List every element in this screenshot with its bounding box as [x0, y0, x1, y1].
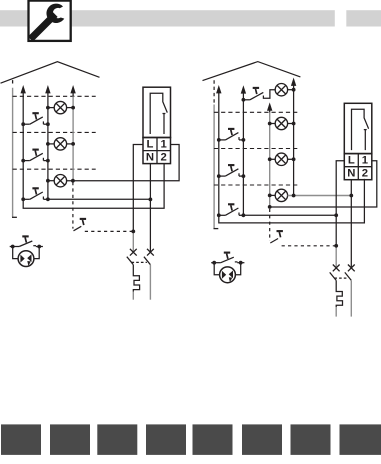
junction lamp E2 left (right house) [268, 157, 272, 161]
junction S1 (right) right contact [242, 138, 246, 142]
wrench icon box [29, 1, 71, 41]
junction S3 (left) right contact [46, 197, 50, 201]
junction lamp E3 left [46, 179, 50, 183]
push button S1 (left) [23, 117, 48, 124]
wire: button supply riser + bus to terminal 2 (left) [23, 93, 164, 209]
junction S2 (left) left contact [21, 159, 25, 163]
junction button bus to L (right) [334, 213, 338, 217]
junction lamp E3 left (right house) [268, 194, 272, 198]
junction S3 (right) left contact [217, 213, 221, 217]
rail foot (right) [214, 228, 219, 230]
wire: button riser + bus to terminal 2 (right) [219, 93, 365, 223]
junction optional button to L (left) [131, 230, 135, 234]
lamp E1 (left) [54, 101, 66, 113]
wire: lamp output terminal 1 (right) [270, 161, 377, 207]
supply arrow (left, lamp return) [70, 85, 75, 93]
svg-text:2: 2 [362, 168, 368, 180]
junction button bus to N riser (left) [149, 198, 153, 202]
lamp E2 (left) [54, 138, 66, 150]
wire: lamp E3 leads (right) [270, 194, 276, 196]
junction S3 (left) left contact [21, 197, 25, 201]
cable junction marks (X) F2 (right) [333, 265, 355, 272]
junction S1 (left) right contact [46, 122, 50, 126]
wire: switched riser (right) [242, 93, 244, 216]
wrench icon [28, 3, 65, 42]
junction S4 (left) left [11, 245, 15, 249]
wire: lamp return riser (right) [293, 86, 295, 196]
lamp E1 (right) [275, 117, 287, 129]
wire: lamp output terminal 1 (left) [67, 145, 180, 181]
attic push button S0 (right) [243, 90, 275, 100]
house outline (right) roof [203, 62, 301, 81]
wire: button bus to N junction (left) [48, 198, 150, 200]
U1 internal switch contact [150, 93, 167, 134]
wire: N (right) [350, 180, 352, 268]
header gray band [0, 10, 335, 26]
junction S1 (left) left contact [21, 122, 25, 126]
optional extra push button branch (right, dashed) [270, 209, 337, 246]
junction lamp E1 left (right house) [268, 122, 272, 126]
supply arrow (left, lamp/button common) [45, 85, 50, 93]
supply arrow (right, lamp feed) [267, 102, 272, 110]
wire: lamp E1 leads (left) [48, 107, 54, 109]
optional button T handle (left) [80, 218, 86, 220]
riser conduit rail (right house) [213, 105, 215, 229]
svg-text:2: 2 [160, 152, 166, 164]
junction lamp return riser bottom [292, 194, 296, 198]
supply arrow (right, switched line) [241, 85, 246, 93]
junction lamp E3 right [71, 179, 75, 183]
wire: lamp E2 leads (right) [270, 158, 276, 160]
staircase timer U2 [344, 103, 372, 179]
wire: breaker output tails F2 (right) (gray) [336, 281, 351, 317]
push button S2 (right) [219, 169, 244, 176]
svg-text:1: 1 [160, 138, 166, 150]
svg-text:N: N [146, 152, 154, 164]
wire: bottom lamp to N riser (right, gray) [288, 195, 352, 197]
push button S1 (right) [219, 133, 244, 140]
wire: lamp feed riser top (right) [269, 110, 271, 112]
wire: common riser (left) [47, 93, 49, 200]
supply arrow (right, lamp return) [291, 78, 296, 86]
junction lamp feed riser to terminal 1 wire [268, 205, 272, 209]
house outline (left) roof [1, 62, 100, 83]
svg-text:1: 1 [362, 155, 368, 167]
junction lamp E1 right (right house) [292, 122, 296, 126]
footer square row [1, 424, 381, 455]
push button S2 (left) [23, 153, 48, 160]
junction lamp E1 right [71, 106, 75, 110]
junction lamp wire to N [349, 194, 353, 198]
riser conduit rail (right house) dashed top [213, 80, 215, 104]
junction lamp E2 right (right house) [292, 157, 296, 161]
floor separation dashed lines (right) [214, 112, 298, 185]
junction S2 (right) left contact [217, 174, 221, 178]
circuit breaker F1 (left) [127, 257, 151, 292]
wire: L feed lower segment (right, gray) [335, 246, 337, 268]
supply arrow (right, button wire) [216, 85, 221, 93]
wire: lamp E1 leads (right) [270, 123, 276, 125]
wire: L feed (right) [336, 161, 344, 246]
lamp E3 (left) [54, 175, 66, 187]
optional extra push button branch (left, dashed) [73, 182, 133, 231]
junction S2 (right) right contact [242, 174, 246, 178]
riser conduit rail (left house) [12, 80, 14, 83]
wire: lamp return riser top (left) [72, 93, 74, 97]
junction attic lamp right [292, 88, 296, 92]
push button S3 (right) [219, 208, 244, 215]
junction S3 (right) right contact [242, 213, 246, 217]
rail foot [12, 216, 17, 218]
junction lamp E2 right [71, 142, 75, 146]
wire: L feed lower segment (left, gray) [132, 231, 134, 252]
S4 (left) glow lamp electrodes [20, 255, 24, 263]
U2 internal switch contact [352, 109, 369, 150]
junction lamp E1 left [46, 106, 50, 110]
junction S4 (right) right [239, 261, 243, 265]
junction S2 (left) right contact [46, 159, 50, 163]
junction S1 (right) left contact [217, 138, 221, 142]
wire: lamp feed riser gray (right) [269, 112, 271, 206]
wire: button bus to L junction (right) [243, 214, 336, 216]
svg-text:L: L [147, 138, 154, 150]
illuminated push button S4 (right) [211, 257, 244, 282]
junction S4 (right) left [212, 261, 216, 265]
push button S3 (left) [23, 192, 48, 199]
wire: attic lamp right lead [288, 89, 294, 91]
junction attic button [242, 98, 246, 102]
lamp E3 (right) [275, 189, 287, 201]
lamp E2 (right) [275, 153, 287, 165]
wire: lamp return riser gray (left) [72, 96, 74, 180]
junction lamp E2 left [46, 142, 50, 146]
svg-text:L: L [348, 155, 355, 167]
illuminated push button S4 (left) [10, 241, 43, 267]
supply arrow (left, button wire) [21, 85, 26, 93]
circuit breaker F2 (right) [330, 272, 352, 307]
optional button T handle (right) [277, 230, 283, 232]
junction optional button to L (right) [334, 244, 338, 248]
attic button T handle [253, 87, 259, 89]
wire: N (left) [149, 164, 151, 253]
wire: lamp E3 leads (left) [48, 180, 54, 182]
S4 (right) glow lamp electrodes [222, 271, 226, 279]
svg-text:N: N [347, 168, 355, 180]
junction S4 (left) right [37, 245, 41, 249]
wire: breaker output tails F1 (left) (gray) [133, 265, 150, 300]
attic lamp E0 (right) [275, 84, 287, 96]
floor separation dashed lines (left) [13, 96, 96, 169]
cable junction marks (X) F1 (left) [130, 249, 154, 256]
staircase timer U1 [143, 87, 171, 163]
wire: lamp E2 leads (left) [48, 143, 54, 145]
wire: L feed (left) [133, 145, 143, 232]
